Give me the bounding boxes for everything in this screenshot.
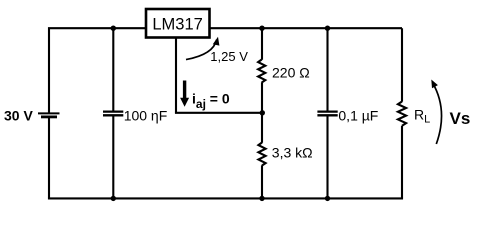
voltage source V1 (30 V battery) (38, 113, 60, 117)
wire between R1 and R2 (261, 82, 263, 143)
svg-text:30 V: 30 V (4, 108, 33, 124)
annotation arrow Vs (output voltage) (433, 83, 442, 144)
wire load column bottom (401, 126, 403, 199)
junction dot top C1 node (111, 26, 116, 31)
capacitor C1 (100 nF) (103, 112, 123, 116)
svg-text:3,3 kΩ: 3,3 kΩ (272, 144, 313, 160)
resistor RL (load) (398, 102, 406, 126)
wire top rail right (LM317 output to load) (210, 27, 402, 29)
regulator U1 LM317 (146, 9, 210, 38)
svg-text:LM317: LM317 (152, 16, 202, 34)
resistor R1 (220 ohm) (258, 60, 265, 83)
wire capacitor C1 top (112, 28, 114, 110)
junction dot bottom R2 node (259, 196, 264, 201)
wire left vertical below battery (48, 117, 50, 199)
wire capacitor C2 top (326, 28, 328, 110)
junction dot bottom C2 node (325, 196, 330, 201)
wire capacitor C2 bottom (326, 116, 328, 198)
wire divider column bottom (261, 165, 263, 198)
wire bottom rail (48, 197, 403, 199)
junction dot bottom C1 node (111, 196, 116, 201)
capacitor C2 (0,1 uF) (317, 112, 337, 116)
annotation arrow 1,25 V (186, 40, 217, 60)
resistor R2 (3,3 kohm) (258, 143, 265, 166)
wire top rail left (battery to LM317 input) (49, 28, 145, 113)
wire ADJ horizontal to divider node (175, 112, 262, 114)
wire load column top (401, 28, 403, 102)
svg-text:100 ηF: 100 ηF (124, 108, 168, 124)
junction dot top R1 node (259, 26, 264, 31)
current arrow iaj (180, 81, 189, 107)
svg-text:1,25 V: 1,25 V (210, 49, 248, 64)
wire LM317 ADJ pin down (175, 38, 177, 113)
junction dot divider ADJ node (260, 110, 265, 115)
junction dot top C2 node (325, 26, 330, 31)
wire capacitor C1 bottom (112, 116, 114, 198)
svg-text:0,1 µF: 0,1 µF (338, 108, 378, 124)
svg-text:220 Ω: 220 Ω (272, 65, 310, 81)
svg-text:Vs: Vs (450, 109, 471, 128)
wire divider column top (261, 28, 263, 60)
